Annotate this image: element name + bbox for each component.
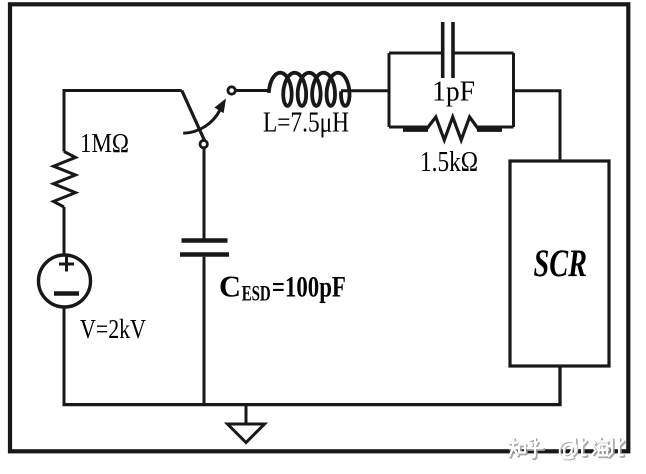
wire: upper contact to inductor (235, 89, 270, 92)
svg-text:1pF: 1pF (432, 77, 475, 108)
svg-text:@: @ (557, 437, 579, 462)
wire: switch lower contact down to C_ESD (203, 148, 206, 241)
switch upper contact circle (228, 87, 235, 94)
wire: top-left horizontal from left branch to switch pivot (64, 91, 182, 152)
switch motion arc arrow (183, 110, 220, 133)
resistor 1.5kΩ zigzag (427, 117, 478, 140)
wire: RC tank output to SCR top (514, 91, 561, 161)
inductor L=7.5uH coil (269, 73, 350, 106)
wire: resistor bottom to source top (63, 207, 66, 256)
capacitor C_ESD top plate (182, 238, 228, 242)
watermark 知乎 @北海北 (509, 437, 624, 463)
svg-text:=100pF: =100pF (272, 271, 346, 304)
capacitor 1pF right plate (451, 22, 455, 78)
RC tank box right edge (512, 53, 515, 127)
capacitor C_ESD bottom plate (180, 252, 229, 256)
svg-text:ESD: ESD (242, 281, 271, 306)
ground symbol (245, 405, 248, 426)
capacitor 1pF left plate (441, 22, 445, 78)
wire: source bottom to bottom rail (63, 307, 66, 406)
svg-text:1MΩ: 1MΩ (80, 128, 129, 158)
switch lower contact circle (200, 140, 207, 147)
svg-text:C: C (219, 269, 241, 304)
RC tank box bottom edge (389, 126, 427, 129)
wire: bottom ground rail (63, 366, 561, 405)
svg-text:SCR: SCR (534, 242, 588, 285)
voltage source plus sign (59, 257, 74, 272)
wire: C_ESD to bottom rail (203, 257, 206, 406)
RC tank box top edge with capacitor gap (389, 52, 441, 55)
SCR box (510, 161, 609, 366)
resistor R 1MΩ (vertical zigzag) (54, 152, 76, 208)
switch S1 blade (182, 91, 207, 147)
svg-text:1.5kΩ: 1.5kΩ (420, 147, 478, 178)
wire: inductor to RC tank box (341, 89, 389, 92)
resistor 1.5kΩ lead stubs (403, 127, 428, 131)
svg-text:L=7.5μH: L=7.5μH (263, 108, 349, 139)
voltage source V=2kV circle (39, 255, 91, 307)
RC tank box left edge (388, 53, 391, 127)
svg-text:V=2kV: V=2kV (80, 314, 146, 344)
voltage source minus sign (54, 291, 79, 296)
